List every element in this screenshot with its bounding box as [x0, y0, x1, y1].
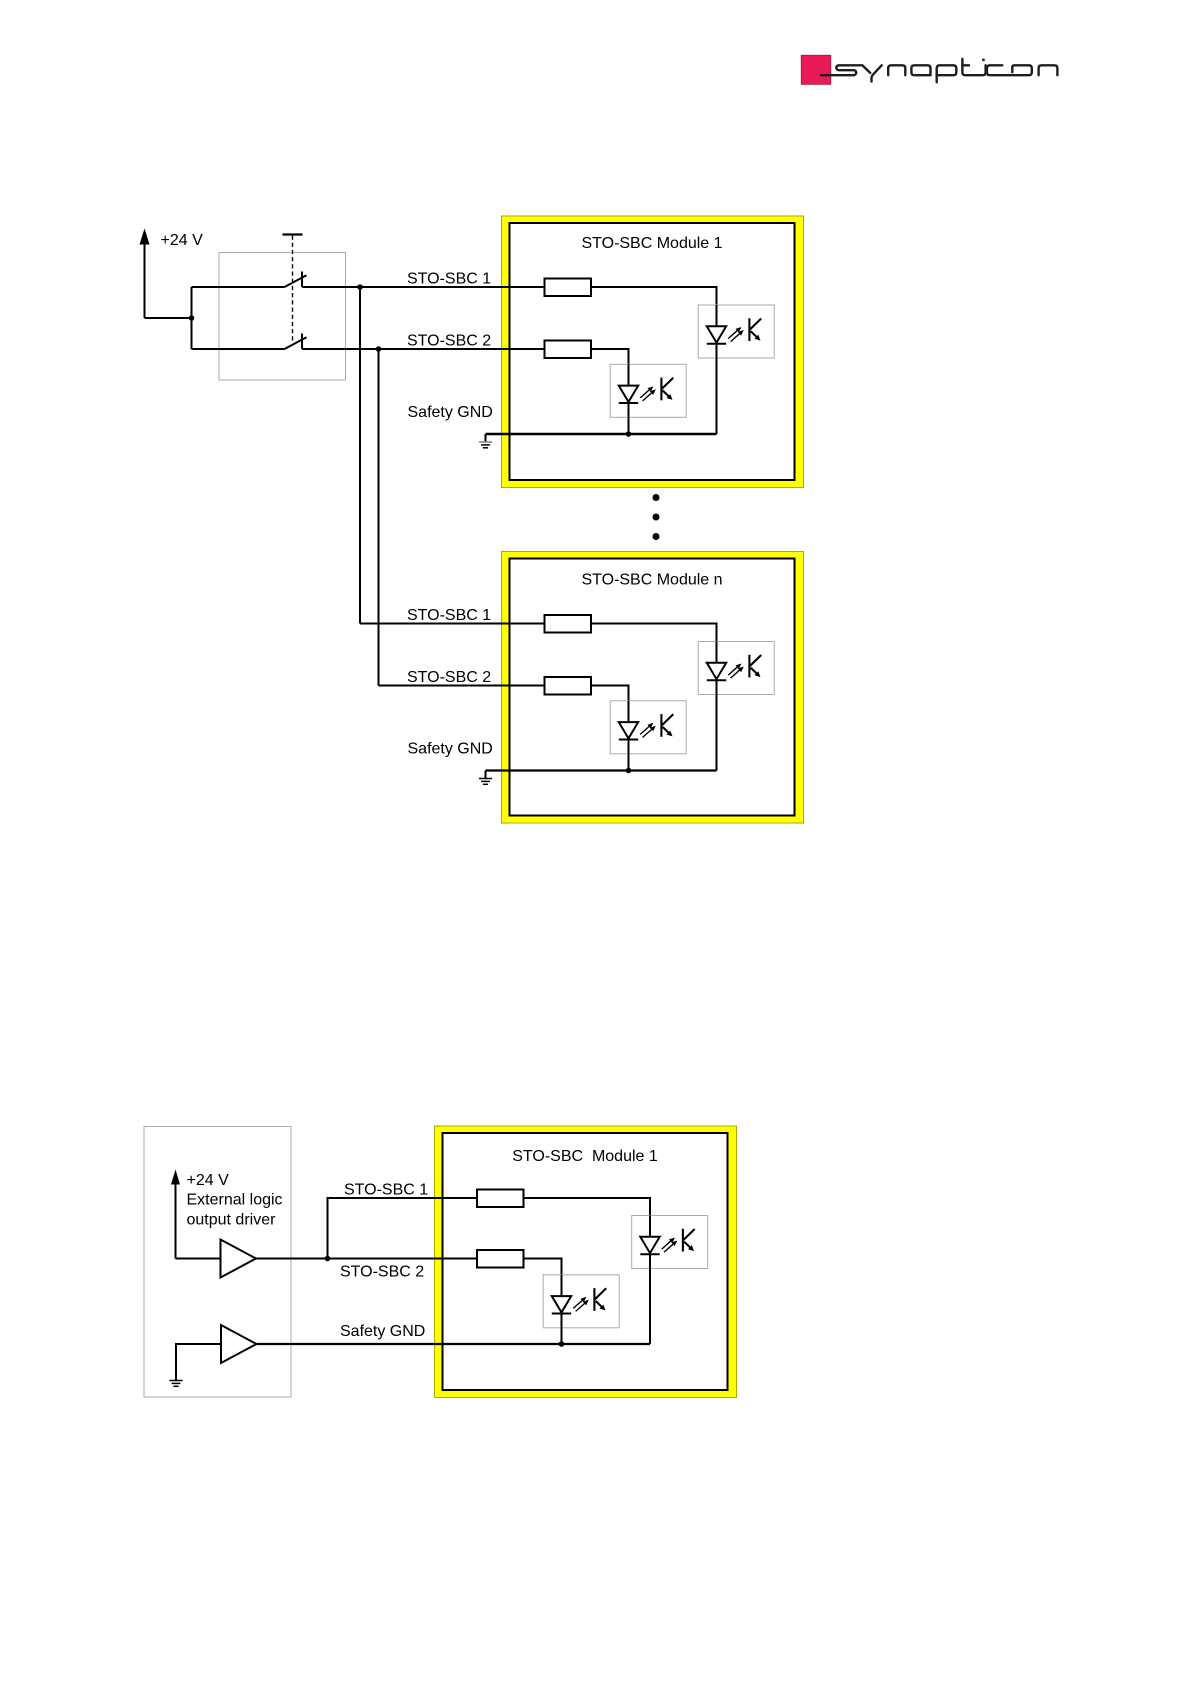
+24V supply arrow — [144, 242, 146, 318]
svg-text:STO-SBC 1: STO-SBC 1 — [407, 271, 491, 288]
svg-text:STO-SBC 1: STO-SBC 1 — [344, 1182, 428, 1199]
optocoupler OK2 — [610, 364, 686, 417]
wire OK5 cathode down — [649, 1254, 651, 1344]
wire R6 to opto — [524, 1259, 562, 1297]
STO-SBC Module n box — [502, 552, 804, 824]
svg-text:+24 V: +24 V — [161, 232, 204, 249]
buffer U2 — [221, 1325, 257, 1363]
wire module-n STO-SBC1 entry — [360, 623, 545, 625]
svg-text:STO-SBC Module 1: STO-SBC Module 1 — [581, 235, 722, 252]
+24V supply arrow (diagram 2) — [175, 1183, 177, 1259]
switch S2 terminal — [301, 334, 303, 350]
resistor R1 — [545, 279, 592, 297]
ground symbol module1 — [479, 442, 492, 448]
wire to buffer U1 — [176, 1258, 221, 1260]
wire OK4 cathode down — [628, 740, 630, 771]
wire OK6 cathode down — [561, 1314, 563, 1345]
wire OK3 cathode down — [716, 680, 718, 770]
letter n — [888, 65, 905, 75]
svg-text:STO-SBC Module n: STO-SBC Module n — [581, 572, 722, 589]
svg-text:STO-SBC 1: STO-SBC 1 — [407, 607, 491, 624]
ellipsis dot 3 — [653, 533, 660, 540]
junction gnd (diagram 2) — [559, 1341, 565, 1347]
svg-text:output driver: output driver — [187, 1212, 277, 1229]
letter a — [911, 65, 930, 75]
wire STO-SBC2 to resistor — [302, 348, 545, 350]
gnd stub module n — [485, 771, 487, 779]
optocoupler OK4 — [610, 701, 686, 754]
wire U2 input — [176, 1344, 221, 1380]
wire R5 to opto — [524, 1198, 651, 1237]
mechanical actuator T-bar — [283, 233, 303, 235]
wire STO-SBC1 to resistor — [302, 286, 545, 288]
wire R3 to opto — [591, 624, 717, 663]
letter n (final) — [1039, 65, 1058, 75]
resistor R3 — [545, 615, 592, 633]
wire OK2 cathode down — [628, 403, 630, 434]
ground symbol (diagram 2) — [169, 1381, 182, 1387]
junction STO-SBC1 bus — [357, 284, 363, 290]
gnd stub module1 — [485, 434, 487, 442]
dot of letter i — [982, 59, 985, 62]
wire OK1 cathode down — [716, 344, 718, 434]
safety relay box — [219, 253, 346, 381]
junction +24V/bus — [189, 315, 195, 321]
ellipsis dot 2 — [653, 514, 660, 521]
svg-text:STO-SBC Module 1: STO-SBC Module 1 — [512, 1148, 658, 1165]
optocoupler OK5 — [632, 1216, 708, 1269]
svg-text:STO-SBC 2: STO-SBC 2 — [340, 1264, 424, 1281]
letters t and i — [962, 59, 985, 75]
letter y — [862, 65, 870, 73]
mechanical link dashed line — [292, 236, 294, 342]
switch S2 blade — [285, 337, 307, 349]
STO-SBC Module 1 box (diagram 2) — [435, 1126, 737, 1398]
ground symbol module n — [479, 779, 492, 785]
svg-text:STO-SBC 2: STO-SBC 2 — [407, 669, 491, 686]
switch S1 terminal — [301, 272, 303, 288]
wire module-n STO-SBC2 entry — [379, 685, 545, 687]
svg-text:Safety GND: Safety GND — [340, 1323, 425, 1340]
resistor R2 — [545, 341, 592, 359]
svg-text:External logic: External logic — [187, 1192, 283, 1209]
wire STO-SBC1 left segment — [192, 286, 285, 288]
wire R2 to opto — [591, 349, 629, 385]
resistor R6 — [477, 1250, 524, 1268]
synapticon wordmark — [821, 59, 1057, 83]
svg-text:Safety GND: Safety GND — [408, 741, 493, 758]
wire R4 to opto — [591, 686, 629, 722]
junction STO-SBC2 bus — [376, 346, 382, 352]
resistor R4 — [545, 677, 592, 695]
wire +24V feed — [145, 317, 192, 319]
junction gnd module n — [626, 768, 632, 774]
svg-text:Safety GND: Safety GND — [408, 404, 493, 421]
wire U2 output safety gnd — [257, 1343, 651, 1345]
wire branch up to STO-SBC1 — [328, 1198, 478, 1259]
wire R1 to opto — [591, 287, 717, 326]
wire STO-SBC2 left segment — [192, 348, 285, 350]
buffer U1 — [221, 1240, 257, 1278]
resistor R5 — [477, 1190, 524, 1208]
optocoupler OK6 — [543, 1275, 619, 1328]
optocoupler OK1 — [698, 305, 774, 358]
wire safety gnd module1 — [486, 433, 717, 435]
wire U1 output — [256, 1258, 477, 1260]
letter p — [937, 65, 957, 82]
synapticon logo pink square — [801, 55, 831, 84]
junction U1 output — [325, 1256, 331, 1262]
svg-text:STO-SBC 2: STO-SBC 2 — [407, 333, 491, 350]
junction gnd module1 — [626, 431, 632, 437]
switch S1 blade — [285, 275, 307, 287]
letter s (with entry line into square) — [821, 65, 861, 75]
wire bus1 vertical — [359, 287, 361, 624]
external logic driver box — [144, 1127, 291, 1398]
wire left bus vertical — [191, 287, 193, 349]
optocoupler OK3 — [698, 642, 774, 695]
letters c and o — [987, 65, 1032, 75]
svg-text:+24 V: +24 V — [187, 1172, 230, 1189]
wire bus2 vertical — [378, 349, 380, 686]
wire safety gnd module n — [486, 769, 717, 771]
ellipsis dot 1 — [653, 494, 660, 501]
STO-SBC Module 1 box — [502, 216, 804, 488]
